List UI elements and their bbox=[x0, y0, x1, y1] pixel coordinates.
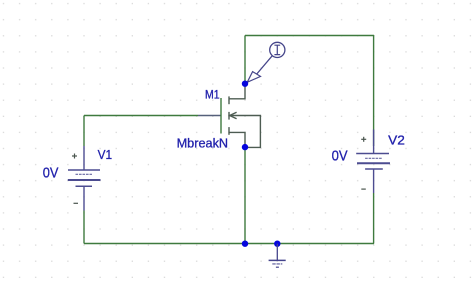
ground bar middle bbox=[272, 263, 282, 265]
wire bottom rail bbox=[84, 243, 374, 245]
ground bar short bbox=[276, 266, 279, 268]
channel dash bottom bbox=[228, 127, 230, 135]
ground stem bbox=[276, 244, 278, 261]
V2 bottom pin stub bbox=[373, 169, 375, 193]
svg-text:MbreakN: MbreakN bbox=[177, 136, 229, 150]
V1 plate long thick bbox=[68, 179, 101, 181]
wire right upper: top corner down to V2 bbox=[373, 35, 375, 146]
V1 top pin stub bbox=[83, 146, 85, 170]
source pin bbox=[229, 132, 245, 147]
svg-text:V2: V2 bbox=[388, 132, 405, 147]
probe arrow head open bbox=[247, 72, 260, 83]
svg-text:0V: 0V bbox=[43, 165, 59, 181]
gate pin stub bbox=[198, 115, 221, 117]
svg-text:M1: M1 bbox=[205, 89, 220, 101]
V2 top pin stub bbox=[373, 130, 375, 154]
channel dash middle bbox=[228, 112, 230, 120]
probe shaft bbox=[257, 56, 273, 74]
V2 plate long top bbox=[356, 153, 389, 155]
wire drain vertical: top rail to node bbox=[244, 36, 246, 85]
junction node at source-bulk bbox=[242, 144, 248, 150]
junction node at drain bbox=[242, 81, 248, 87]
svg-text:V1: V1 bbox=[98, 147, 113, 162]
V2 plate short bottom bbox=[365, 168, 383, 170]
junction node bottom rail at ground bbox=[274, 241, 280, 247]
drain pin bbox=[229, 84, 245, 99]
V2 plus sign bbox=[361, 137, 366, 142]
svg-text:0V: 0V bbox=[332, 148, 348, 164]
bulk pin with loop to source bbox=[230, 116, 261, 148]
V2 plate long thick bbox=[357, 162, 390, 164]
wire left upper: V1 top to gate corner bbox=[83, 116, 85, 147]
bulk arrow head bbox=[230, 112, 237, 119]
channel dash top bbox=[228, 96, 230, 104]
wire right lower: V2 bottom to bottom rail bbox=[373, 193, 375, 244]
wire left lower: bottom rail up to V1 bottom bbox=[83, 211, 85, 244]
probe I glyph bbox=[274, 45, 280, 54]
transistor M1 (MbreakN NMOS) bbox=[198, 84, 260, 147]
V1 plate long top bbox=[68, 169, 100, 171]
gate bar bbox=[220, 98, 222, 134]
ground symbol bbox=[269, 244, 286, 268]
V1 plate short bottom bbox=[76, 185, 93, 187]
V1 plate short dashed bbox=[76, 173, 93, 175]
junction node bottom rail at source bbox=[242, 241, 248, 247]
V2 plate short dashed bbox=[365, 157, 382, 159]
wire gate: corner to M1 gate bbox=[84, 115, 198, 117]
V1 bottom pin stub bbox=[83, 186, 85, 210]
probe circle bbox=[270, 42, 285, 57]
wire top: node drain to V2 top bbox=[245, 35, 374, 37]
V1 minus sign bbox=[74, 202, 79, 204]
voltage source V1 bbox=[68, 146, 101, 211]
V1 plus sign bbox=[72, 154, 77, 159]
current probe marker bbox=[247, 42, 285, 82]
voltage source V2 bbox=[356, 130, 390, 194]
wire source vertical: M1 source node to bottom rail bbox=[244, 147, 246, 243]
ground bar long bbox=[269, 259, 286, 261]
V2 minus sign bbox=[361, 188, 366, 190]
